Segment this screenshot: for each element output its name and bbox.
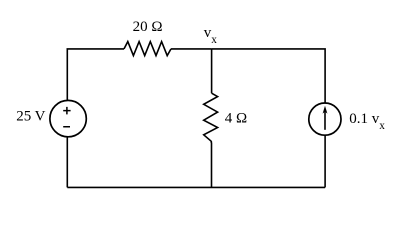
svg-text:4 Ω: 4 Ω — [225, 111, 247, 127]
svg-text:20 Ω: 20 Ω — [133, 19, 163, 35]
wire: node vx down to resistor 4Ω top lead — [211, 49, 213, 93]
svg-text:vx: vx — [204, 25, 218, 46]
wire: voltage source + terminal up and across to resistor 20Ω (top-left corner) — [67, 49, 124, 101]
svg-text:25 V: 25 V — [16, 109, 45, 125]
wire: bottom rail — [67, 186, 325, 188]
voltage source V1 25 V (circle with + and −) — [50, 100, 86, 136]
resistor 4Ω (vertical zigzag) — [204, 93, 218, 141]
wire: resistor 20Ω right lead to node vx — [171, 48, 212, 50]
wire: resistor 4Ω bottom lead down to bottom rail — [210, 141, 212, 187]
current source I1 = 0.1 vx (circle with upward arrow) — [309, 103, 341, 135]
resistor 20Ω (horizontal zigzag) — [124, 42, 171, 56]
svg-text:0.1 vx: 0.1 vx — [349, 111, 385, 132]
wire: voltage source − terminal down to bottom-left corner — [66, 137, 68, 188]
wire: bottom-right corner up to current source bottom — [324, 135, 326, 187]
wire: node vx across to current source top (top-right corner) — [212, 49, 326, 103]
